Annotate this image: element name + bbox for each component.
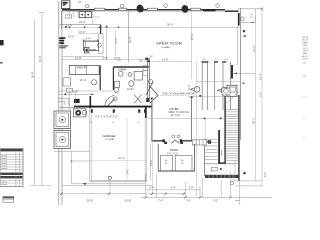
long center verticals (152, 98, 154, 194)
svg-text:12'-6": 12'-6" (114, 56, 121, 60)
entry room below foyer (157, 144, 159, 172)
svg-text:GARAGE: GARAGE (103, 134, 116, 138)
hall walls (202, 62, 230, 111)
right stairs (long run) (225, 110, 239, 138)
svg-text:3'-0": 3'-0" (171, 185, 176, 189)
svg-text:xxxxxxx: xxxxxxx (1, 184, 7, 186)
svg-text:2'-0": 2'-0" (215, 59, 219, 61)
svg-text:ENTRY: ENTRY (170, 149, 178, 152)
svg-text:7'-4": 7'-4" (158, 199, 163, 203)
left outer dimension lines (30, 12, 52, 186)
svg-text:5'-2": 5'-2" (250, 13, 254, 18)
svg-text:2'-8": 2'-8" (189, 185, 194, 189)
bath/mud area (113, 66, 148, 68)
top wall (62, 10, 239, 11)
svg-text:DTLS: DTLS (303, 59, 309, 61)
keynote tags (191, 86, 228, 93)
svg-text:13'-0": 13'-0" (68, 34, 75, 38)
foyer (151, 98, 153, 142)
svg-text:5'-0": 5'-0" (213, 199, 218, 203)
window tag circles (86, 4, 220, 8)
bottom-left schedule table (0, 148, 23, 186)
svg-text:2x6 @: 2x6 @ (303, 45, 309, 47)
svg-text:2'-8": 2'-8" (103, 56, 108, 60)
svg-text:36'-8": 36'-8" (31, 71, 35, 78)
small table bottom-left (3, 196, 14, 202)
svg-text:9'-2": 9'-2" (180, 159, 184, 164)
svg-text:ALL E: ALL E (303, 39, 309, 42)
svg-text:WALL: WALL (303, 41, 309, 44)
svg-text:(2): (2) (303, 76, 306, 78)
svg-text:16"OC: 16"OC (303, 48, 309, 50)
left edge marks (0, 40, 4, 45)
svg-text:5'-2": 5'-2" (263, 172, 267, 177)
kitchen island (78, 33, 98, 35)
svg-text:SEE S: SEE S (303, 53, 309, 55)
svg-text:13'-0": 13'-0" (114, 37, 118, 44)
svg-text:TYP U: TYP U (303, 51, 309, 53)
svg-text:PANTRY: PANTRY (77, 65, 88, 69)
svg-text:3'-3" 5'-4" 5'-4" 3'-3": 3'-3" 5'-4" 5'-4" 3'-3" (95, 115, 118, 119)
svg-text:7'-4": 7'-4" (186, 199, 191, 203)
porch bottom right (205, 163, 239, 165)
kitchen walls (100, 25, 102, 34)
plan left border double line (59, 1, 62, 205)
garage (74, 106, 152, 108)
svg-text:31'-2": 31'-2" (149, 159, 153, 166)
svg-text:29'-2": 29'-2" (252, 117, 256, 124)
kitchen lower dim line (62, 59, 149, 61)
svg-text:25'-2": 25'-2" (190, 33, 194, 40)
svg-text:5'-2": 5'-2" (259, 92, 263, 97)
top interior dimension line (63, 26, 240, 28)
svg-text:20'-8": 20'-8" (125, 199, 132, 203)
svg-text:8'-0": 8'-0" (126, 169, 130, 174)
svg-text:24'-4": 24'-4" (79, 20, 86, 24)
windows on top wall (94, 8, 200, 10)
svg-text:3'-2": 3'-2" (187, 84, 191, 89)
svg-text:xxxxxxx: xxxxxxx (1, 168, 7, 170)
svg-text:OV HEAD: OV HEAD (105, 138, 115, 141)
bottom dimension lines (71, 151, 73, 184)
powder fixtures / misc (107, 99, 116, 108)
center divide wall (147, 58, 149, 98)
svg-text:LINE OF WALKWAY ABOVE: LINE OF WALKWAY ABOVE (162, 92, 195, 96)
svg-text:1'-0": 1'-0" (224, 59, 228, 61)
svg-text:GREAT ROOM: GREAT ROOM (156, 41, 182, 45)
svg-text:5'-0": 5'-0" (73, 90, 78, 94)
kitchen top appliances (79, 12, 91, 18)
plant blobs (137, 5, 189, 13)
svg-text:14'-6": 14'-6" (162, 58, 169, 62)
svg-text:W.I.C.: W.I.C. (80, 78, 87, 82)
svg-text:A-5 D: A-5 D (303, 55, 309, 58)
left utility circle boxes (54, 111, 71, 149)
svg-text:31'-4": 31'-4" (38, 55, 42, 62)
svg-text:9'-2": 9'-2" (164, 159, 168, 164)
svg-text:41'-4": 41'-4" (258, 73, 262, 80)
top-left mini schedule box (62, 1, 70, 9)
svg-text:31'-4": 31'-4" (252, 45, 256, 52)
svg-text:13'-8": 13'-8" (75, 56, 82, 60)
right dimension verticals (255, 16, 257, 181)
pantry cabinets (69, 65, 99, 74)
svg-text:22': 22' (78, 0, 82, 4)
svg-text:2'-0": 2'-0" (203, 59, 207, 61)
svg-text:LC: LC (150, 54, 153, 58)
svg-text:20'-4": 20'-4" (118, 156, 125, 160)
svg-text:AZAR: AZAR (90, 49, 96, 52)
svg-text:LNDRY: LNDRY (118, 68, 127, 72)
right wall features (238, 13, 240, 26)
svg-text:(V HEAD): (V HEAD) (161, 46, 171, 49)
kitchen label text block (59, 37, 65, 44)
svg-text:10'-0": 10'-0" (79, 30, 86, 34)
U stair bottom (205, 139, 239, 160)
svg-text:3'-0": 3'-0" (149, 185, 154, 189)
svg-text:36'-4": 36'-4" (167, 23, 174, 27)
svg-text:12x10: 12x10 (127, 87, 135, 91)
svg-text:5'-0" CLG: 5'-0" CLG (167, 152, 178, 156)
svg-text:16'-4": 16'-4" (128, 36, 132, 43)
svg-text:30'-8": 30'-8" (87, 199, 94, 203)
svg-text:NOTE: NOTE (303, 37, 309, 39)
svg-text:20' CLG: 20' CLG (171, 113, 180, 117)
svg-text:5'-4": 5'-4" (86, 36, 91, 40)
right margin notes (302, 37, 310, 140)
